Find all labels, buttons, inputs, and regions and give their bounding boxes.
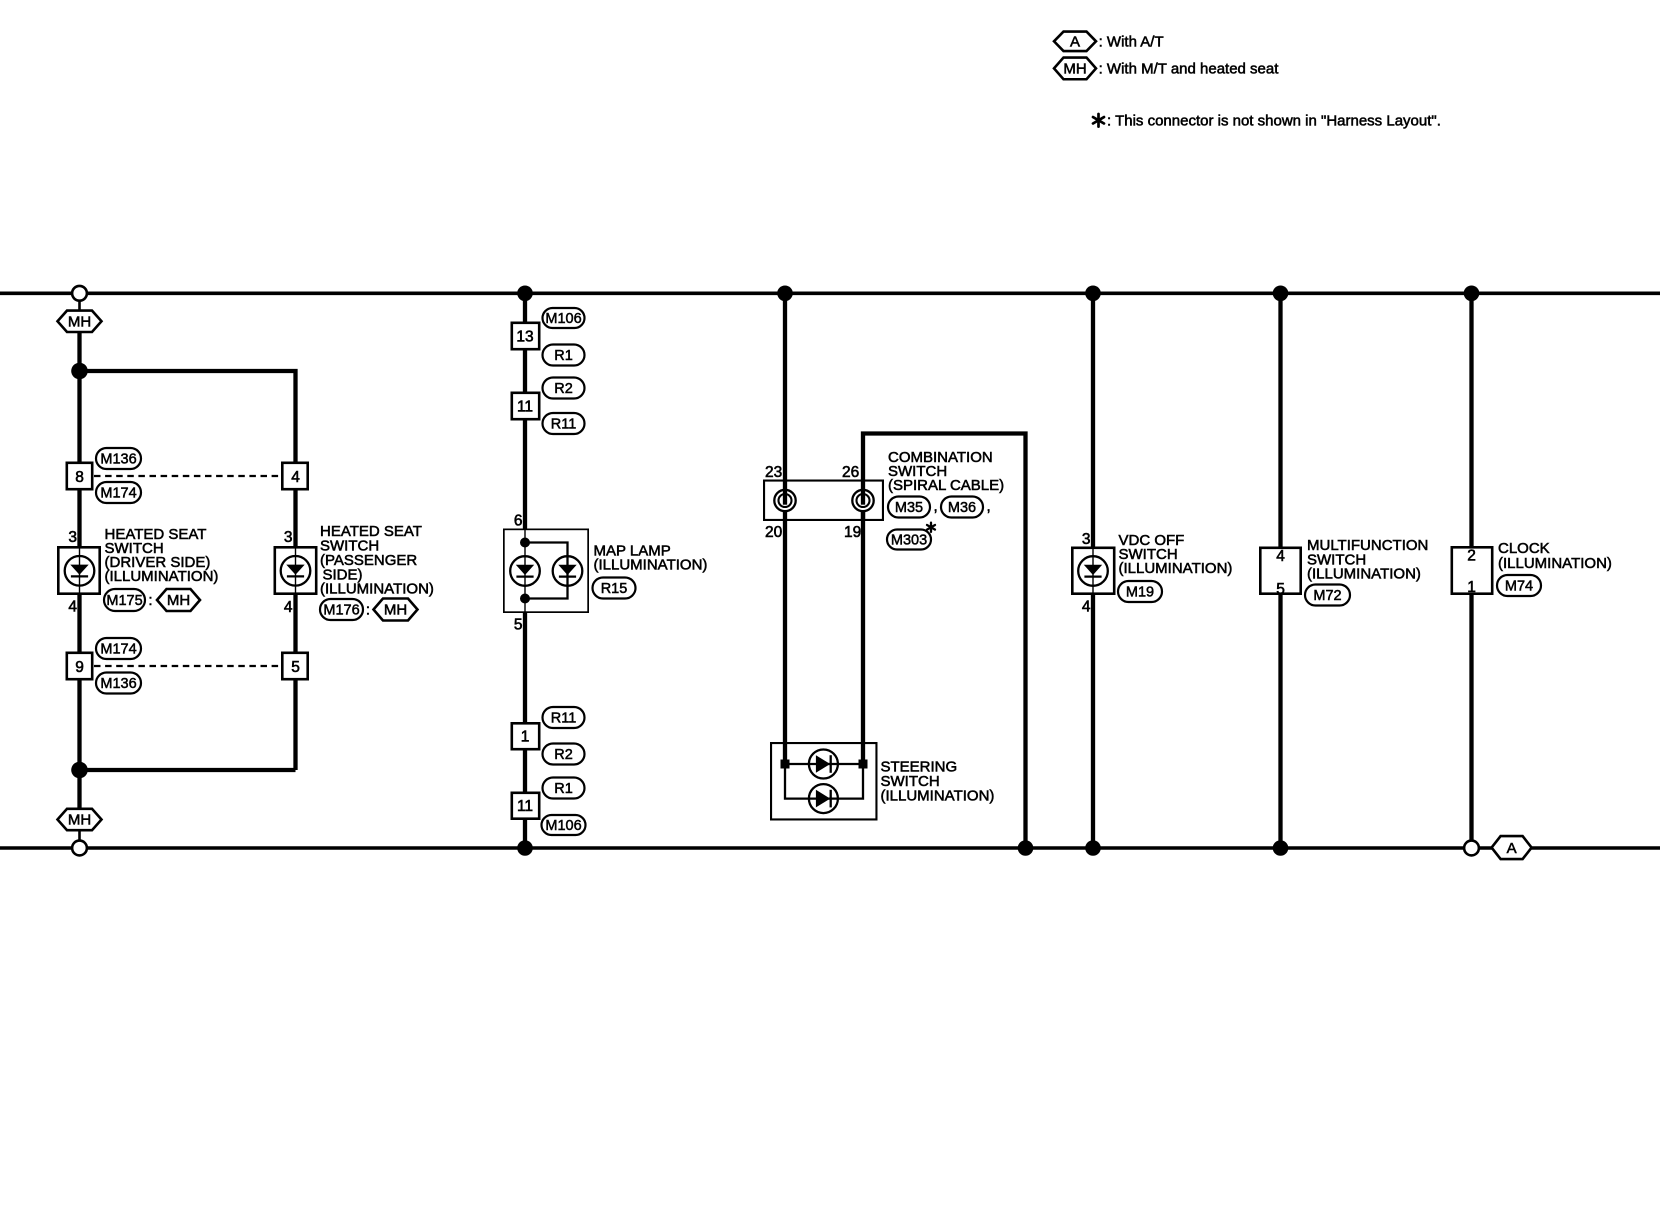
legend asterisk note bbox=[1097, 114, 1100, 127]
svg-text:R2: R2 bbox=[554, 747, 573, 763]
wire dashed 9 to 5 bbox=[94, 665, 281, 667]
svg-text:M136: M136 bbox=[100, 676, 136, 692]
svg-text:(ILLUMINATION): (ILLUMINATION) bbox=[320, 581, 434, 598]
wire connector 9 to bottom junction bbox=[77, 681, 81, 771]
label M74 bbox=[1497, 575, 1541, 596]
label M174 (upper) bbox=[96, 482, 141, 503]
connector A tag bottom bbox=[1492, 836, 1532, 859]
connector 5 (passenger) bbox=[282, 653, 307, 679]
label R2 (lower) bbox=[543, 744, 585, 765]
svg-text:1: 1 bbox=[1467, 579, 1476, 596]
diode steering lower bbox=[809, 784, 838, 813]
label M106 (top) bbox=[543, 308, 585, 328]
node map lamp branch top bbox=[520, 538, 530, 548]
connector 1 bbox=[512, 723, 539, 749]
svg-text:(ILLUMINATION): (ILLUMINATION) bbox=[105, 568, 219, 585]
svg-text:11: 11 bbox=[517, 398, 533, 415]
svg-text:MH: MH bbox=[167, 592, 190, 609]
wire driver diode to connector 9 bbox=[77, 595, 81, 652]
diode map lamp left bbox=[510, 556, 540, 586]
node junction clock top bbox=[1464, 286, 1480, 302]
svg-text:(ILLUMINATION): (ILLUMINATION) bbox=[881, 788, 995, 805]
node junction top left bbox=[71, 363, 88, 380]
svg-text:4: 4 bbox=[68, 599, 77, 616]
svg-text:4: 4 bbox=[1276, 548, 1285, 565]
node junction map lamp top bbox=[517, 286, 533, 302]
svg-text:,: , bbox=[987, 498, 991, 515]
svg-text:2: 2 bbox=[1467, 548, 1476, 565]
svg-text:M106: M106 bbox=[545, 311, 581, 327]
clock connector box bbox=[1452, 547, 1492, 593]
connector 9 bbox=[67, 653, 92, 679]
wire map lamp diode branch bbox=[525, 543, 568, 599]
svg-text:20: 20 bbox=[765, 524, 783, 541]
node open circle top left bbox=[72, 286, 87, 301]
wire dashed 8 to 4 bbox=[94, 475, 281, 477]
wire MH tag to junction bbox=[77, 332, 81, 371]
svg-text:,: , bbox=[934, 498, 938, 515]
svg-text:MH: MH bbox=[68, 314, 91, 331]
svg-text:3: 3 bbox=[68, 529, 77, 546]
wire spiral right to steering switch bbox=[861, 511, 865, 764]
node steering left bbox=[781, 760, 790, 769]
svg-text:M136: M136 bbox=[100, 452, 136, 468]
svg-text:M35: M35 bbox=[895, 500, 923, 516]
heated seat switch passenger diode box bbox=[275, 547, 316, 593]
svg-text:M174: M174 bbox=[100, 486, 136, 502]
connector MH tag top bbox=[58, 311, 102, 332]
wire clock column upper bbox=[1469, 293, 1473, 546]
heated seat switch driver diode box bbox=[58, 547, 99, 593]
label R1 (lower) bbox=[543, 778, 585, 799]
legend A/T hexagon bbox=[1054, 32, 1096, 52]
label M136 (lower) bbox=[96, 673, 141, 694]
node junction bottom left bbox=[71, 762, 88, 779]
label R11 (upper) bbox=[543, 413, 585, 434]
node junction VDC top bbox=[1085, 286, 1101, 302]
steering switch box bbox=[771, 743, 876, 819]
connector 13 bbox=[512, 323, 539, 349]
svg-text::: : bbox=[366, 602, 370, 619]
svg-text:3: 3 bbox=[284, 529, 293, 546]
svg-text:M176: M176 bbox=[323, 603, 359, 619]
svg-text:A: A bbox=[1070, 34, 1080, 51]
svg-text:5: 5 bbox=[291, 659, 300, 676]
svg-text:6: 6 bbox=[514, 513, 523, 530]
wire 11 lower to bottom bus bbox=[523, 820, 527, 848]
svg-text:M303: M303 bbox=[891, 533, 927, 549]
wire clock column lower bbox=[1469, 595, 1473, 845]
diode steering upper bbox=[809, 750, 838, 779]
spiral cable connector box bbox=[764, 481, 883, 520]
wire spiral left to steering switch bbox=[783, 511, 787, 764]
wire 1 to 11 lower bbox=[523, 751, 527, 792]
label R11 (lower) bbox=[543, 707, 585, 728]
wire MH tag to bottom bus bbox=[78, 830, 81, 845]
wire MH drop from top bus bbox=[78, 296, 81, 311]
svg-text:3: 3 bbox=[1082, 531, 1091, 548]
svg-text:M74: M74 bbox=[1505, 579, 1533, 595]
wire multifunction column upper bbox=[1278, 293, 1282, 547]
label M36 bbox=[941, 497, 983, 518]
svg-text:19: 19 bbox=[844, 524, 861, 541]
wire top illumination bus bbox=[0, 291, 1660, 295]
wire VDC column upper bbox=[1091, 293, 1095, 547]
svg-text:5: 5 bbox=[514, 617, 523, 634]
wire junction to connector 8 bbox=[77, 371, 81, 462]
wire connector 4 to passenger diode bbox=[293, 491, 297, 547]
connector MH tag driver bbox=[157, 589, 200, 611]
svg-text:R11: R11 bbox=[551, 711, 577, 727]
wire passenger diode to connector 5 bbox=[293, 595, 297, 652]
connector 4 (passenger) bbox=[282, 463, 307, 489]
wire bottom illumination bus bbox=[0, 846, 1660, 850]
wire map lamp column upper bbox=[523, 293, 527, 322]
node steering right bbox=[859, 760, 868, 769]
label M72 bbox=[1305, 585, 1350, 606]
label M176 bbox=[320, 599, 363, 620]
node junction multifunction top bbox=[1273, 286, 1289, 302]
svg-text:M36: M36 bbox=[948, 500, 976, 516]
svg-text:MH: MH bbox=[68, 812, 91, 829]
wire map lamp to connector 1 bbox=[523, 613, 527, 722]
label M174 (lower) bbox=[96, 638, 141, 659]
diode VDC illumination bbox=[1078, 556, 1108, 586]
connector MH tag passenger bbox=[374, 599, 418, 621]
node junction map lamp bottom bbox=[517, 840, 533, 856]
svg-text:(SPIRAL CABLE): (SPIRAL CABLE) bbox=[888, 477, 1004, 494]
label M19 bbox=[1118, 581, 1162, 602]
svg-text:(ILLUMINATION): (ILLUMINATION) bbox=[1119, 560, 1233, 577]
connector 11 (lower) bbox=[512, 793, 539, 819]
svg-text:A: A bbox=[1507, 840, 1517, 857]
svg-text:MH: MH bbox=[1063, 61, 1086, 78]
node map lamp branch bottom bbox=[520, 594, 530, 604]
svg-text:M19: M19 bbox=[1126, 585, 1154, 601]
svg-text:M106: M106 bbox=[545, 818, 581, 834]
wire junction to MH tag bottom bbox=[77, 770, 81, 809]
svg-text:23: 23 bbox=[765, 464, 782, 481]
legend MH hexagon bbox=[1054, 58, 1096, 80]
svg-text:M174: M174 bbox=[100, 642, 136, 658]
svg-text:M175: M175 bbox=[106, 593, 142, 609]
svg-text:: With M/T and heated seat: : With M/T and heated seat bbox=[1099, 60, 1280, 77]
svg-text:9: 9 bbox=[75, 659, 84, 676]
wire multifunction column lower bbox=[1278, 595, 1282, 848]
diode map lamp right bbox=[553, 556, 583, 586]
svg-text:11: 11 bbox=[517, 798, 533, 815]
label R1 (upper) bbox=[543, 345, 585, 366]
wire 11 to map lamp bbox=[523, 421, 527, 529]
svg-text:1: 1 bbox=[521, 729, 530, 746]
svg-text:26: 26 bbox=[842, 464, 859, 481]
svg-text:4: 4 bbox=[1082, 599, 1091, 616]
spiral cable coil right bbox=[852, 490, 873, 511]
svg-text:(ILLUMINATION): (ILLUMINATION) bbox=[594, 557, 708, 574]
connector MH tag bottom bbox=[58, 809, 102, 830]
svg-text:R1: R1 bbox=[554, 781, 573, 797]
label M303 with asterisk bbox=[887, 530, 931, 550]
diode passenger illumination bbox=[281, 556, 311, 586]
label R15 bbox=[593, 578, 636, 599]
wire 13 to 11 bbox=[523, 351, 527, 392]
svg-text:(ILLUMINATION): (ILLUMINATION) bbox=[1498, 555, 1612, 572]
svg-text:: This connector is not shown: : This connector is not shown in "Harnes… bbox=[1107, 113, 1441, 130]
wire VDC column lower bbox=[1091, 595, 1095, 848]
multifunction switch connector box bbox=[1260, 548, 1300, 594]
label M35 bbox=[888, 497, 930, 518]
diode driver illumination bbox=[65, 556, 95, 586]
wire branch junction to passenger column bbox=[80, 371, 296, 462]
wire steering diode upper row bbox=[785, 763, 863, 765]
svg-text:8: 8 bbox=[75, 469, 84, 486]
node open circle bottom left bbox=[72, 841, 87, 856]
wire connector 5 to bottom branch bbox=[293, 681, 297, 771]
label M175 bbox=[104, 589, 145, 611]
svg-text:R11: R11 bbox=[551, 417, 577, 433]
svg-text:R2: R2 bbox=[554, 381, 573, 397]
svg-text:4: 4 bbox=[291, 469, 300, 486]
svg-text:MH: MH bbox=[384, 602, 407, 619]
wire combination column from top bus bbox=[783, 293, 787, 489]
VDC OFF switch diode box bbox=[1072, 548, 1114, 594]
connector 8 bbox=[67, 463, 92, 489]
svg-text:(ILLUMINATION): (ILLUMINATION) bbox=[1307, 566, 1421, 583]
svg-text:4: 4 bbox=[284, 599, 293, 616]
node junction combination box bottom bbox=[1018, 840, 1034, 856]
svg-text:: With A/T: : With A/T bbox=[1099, 33, 1164, 50]
svg-text:13: 13 bbox=[516, 328, 533, 345]
spiral cable coil left bbox=[774, 490, 795, 511]
map lamp box bbox=[504, 529, 588, 612]
label M106 (bottom) bbox=[542, 815, 586, 835]
node junction combination top bbox=[777, 286, 793, 302]
wire connector 8 to driver diode bbox=[77, 491, 81, 547]
svg-text:R1: R1 bbox=[554, 348, 573, 364]
node open circle clock bottom bbox=[1464, 841, 1479, 856]
node junction multifunction bottom bbox=[1273, 840, 1289, 856]
svg-text:M72: M72 bbox=[1313, 588, 1341, 604]
wire bottom branch passenger to driver bbox=[80, 768, 296, 772]
combination switch outer box bbox=[863, 434, 1026, 849]
node junction VDC bottom bbox=[1085, 840, 1101, 856]
label R2 (upper) bbox=[543, 378, 585, 399]
wire steering diode lower loop bbox=[785, 764, 863, 799]
svg-text::: : bbox=[148, 592, 152, 609]
label M136 (upper) bbox=[96, 448, 141, 469]
svg-text:R15: R15 bbox=[601, 581, 628, 597]
connector 11 (upper) bbox=[512, 393, 539, 419]
